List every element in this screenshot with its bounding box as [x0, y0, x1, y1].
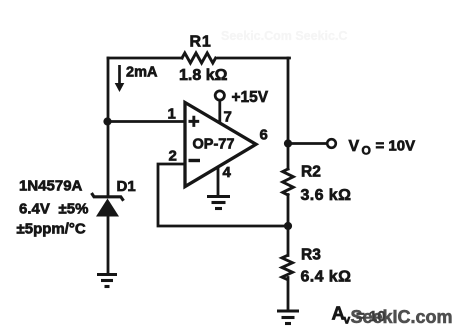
svg-text:7: 7 [224, 109, 232, 126]
svg-text:6: 6 [260, 127, 268, 144]
svg-text:R2: R2 [301, 164, 321, 181]
svg-text:2: 2 [169, 148, 177, 165]
svg-text:6.4V: 6.4V [19, 201, 50, 218]
svg-text:Seekic.Com Seekic.C: Seekic.Com Seekic.C [221, 29, 347, 43]
svg-text:1.8 kΩ: 1.8 kΩ [179, 67, 228, 84]
svg-text:R3: R3 [301, 247, 321, 264]
svg-text:1N4579A: 1N4579A [19, 178, 83, 195]
svg-text:3.6 kΩ: 3.6 kΩ [301, 187, 352, 204]
svg-text:±5%: ±5% [59, 201, 89, 218]
svg-text:+15V: +15V [232, 89, 269, 106]
svg-text:1: 1 [168, 106, 176, 123]
svg-text:R1: R1 [190, 34, 212, 51]
svg-text:V: V [349, 138, 360, 155]
svg-text:= 10: = 10 [356, 308, 386, 325]
svg-text:OP-77: OP-77 [193, 137, 235, 153]
svg-text:+: + [188, 111, 200, 133]
svg-text:6.4 kΩ: 6.4 kΩ [301, 269, 352, 286]
svg-text:±5ppm/°C: ±5ppm/°C [17, 221, 86, 238]
svg-text:2mA: 2mA [126, 65, 158, 81]
svg-text:O: O [362, 144, 371, 158]
svg-text:4: 4 [223, 164, 232, 181]
svg-text:v: v [344, 313, 351, 327]
svg-text:D1: D1 [117, 178, 136, 195]
svg-text:= 10V: = 10V [376, 138, 416, 155]
